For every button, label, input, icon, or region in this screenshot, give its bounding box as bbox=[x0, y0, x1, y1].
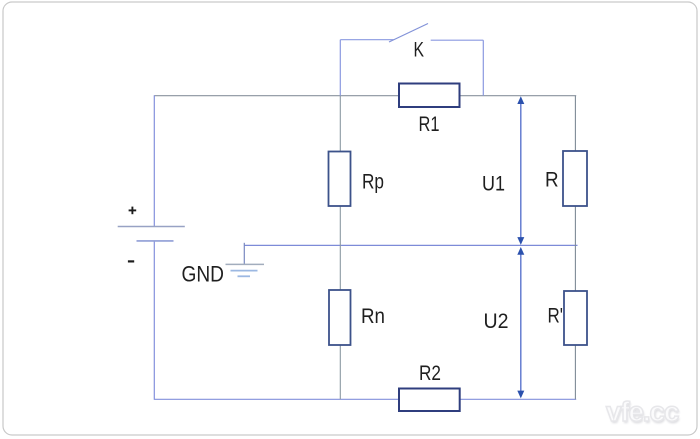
wire: bypass top-right segment bbox=[431, 39, 484, 41]
watermark vfe.cc bbox=[606, 396, 678, 428]
battery top plate (+) bbox=[118, 226, 185, 228]
wire: right vertical R to R' bbox=[574, 206, 576, 291]
wire: left vertical (battery - side) bbox=[153, 241, 155, 400]
resistor R' bbox=[564, 291, 587, 345]
wire: center branch Rp to Rn bbox=[339, 206, 341, 290]
ground bar 1 bbox=[226, 263, 265, 265]
battery bottom plate (-) bbox=[137, 240, 174, 242]
U1 measurement arrow bbox=[517, 96, 524, 245]
svg-text:Rp: Rp bbox=[362, 171, 384, 194]
wire: right vertical below R' bbox=[574, 345, 576, 399]
wire: top horizontal main bus bbox=[154, 95, 576, 97]
resistor Rp bbox=[329, 152, 351, 207]
wire: center branch below Rn bbox=[339, 345, 341, 399]
wire: bypass top-left segment bbox=[340, 39, 393, 41]
resistor R2 bbox=[399, 389, 460, 412]
battery - label bbox=[128, 260, 134, 262]
svg-text:GND: GND bbox=[182, 262, 225, 287]
wire: right vertical above R bbox=[574, 96, 576, 151]
resistor R1 bbox=[399, 84, 460, 108]
ground bar 2 bbox=[231, 270, 258, 272]
wire: bypass right vertical bbox=[482, 40, 484, 95]
resistor Rn bbox=[329, 290, 351, 345]
svg-text:R2: R2 bbox=[419, 362, 441, 385]
wire: middle horizontal (GND net) bbox=[244, 244, 577, 246]
svg-text:U1: U1 bbox=[482, 173, 505, 196]
ground bar 3 bbox=[238, 275, 251, 277]
resistor R bbox=[563, 151, 587, 206]
battery + label bbox=[129, 207, 137, 215]
svg-text:K: K bbox=[414, 39, 425, 62]
wire: left vertical (battery + side) bbox=[153, 95, 155, 226]
ground stub wire bbox=[243, 243, 245, 265]
U2 measurement arrow bbox=[517, 247, 524, 398]
wire: bypass left vertical bbox=[339, 40, 341, 96]
svg-text:R: R bbox=[545, 168, 559, 191]
svg-text:Rn: Rn bbox=[361, 305, 385, 328]
svg-text:R': R' bbox=[548, 305, 564, 328]
svg-text:R1: R1 bbox=[419, 113, 440, 136]
wire: bottom horizontal bbox=[154, 398, 576, 400]
wire: center branch above Rp bbox=[339, 96, 341, 152]
switch K blade bbox=[389, 24, 428, 43]
svg-text:U2: U2 bbox=[484, 310, 509, 333]
